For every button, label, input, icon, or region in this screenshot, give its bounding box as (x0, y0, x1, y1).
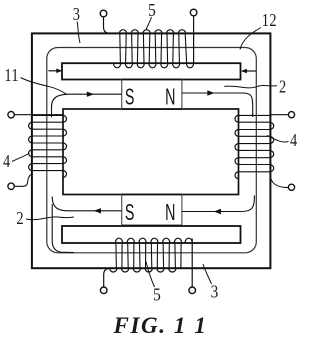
coil 4 right: top terminal lead (270, 114, 288, 116)
coil 4 left: wires (32, 115, 63, 170)
flux path bottom-left with arrow (52, 197, 122, 253)
coil 4 left: bumps on frame edge (29, 122, 32, 170)
arrow in top bar right (241, 69, 256, 74)
central armature block (63, 109, 239, 195)
coil 5 top: winding wires (120, 33, 187, 63)
coil 5 top: upper loop bumps (119, 30, 185, 34)
svg-text:S: S (125, 85, 135, 110)
coil 4 right: bottom terminal lead (271, 178, 289, 188)
svg-text:5: 5 (153, 284, 161, 304)
coil 5 top: left terminal (100, 10, 107, 17)
arrow in top bar left (49, 69, 63, 74)
coil 4 left: bottom terminal (8, 183, 14, 189)
ring core 12 (47, 48, 256, 253)
coil 4 right: wires (239, 115, 271, 171)
label 3 bottom with leader (203, 264, 218, 302)
flux path bottom-right with arrow (182, 196, 255, 215)
svg-text:2: 2 (16, 208, 23, 229)
svg-text:S: S (125, 201, 135, 226)
coil 5 bottom: left terminal lead (104, 268, 116, 287)
svg-text:12: 12 (262, 10, 277, 31)
label 2 left with leader (16, 208, 74, 229)
coil 4 right: bumps on armature edge (235, 115, 239, 178)
coil 5 top: left terminal lead (104, 17, 120, 34)
coil 5 bottom: upper loop bumps (115, 238, 192, 243)
coil 5 bottom: right terminal lead (191, 239, 193, 288)
svg-text:3: 3 (211, 281, 219, 301)
svg-text:2: 2 (279, 76, 286, 97)
svg-text:4: 4 (3, 151, 10, 172)
coil 5 top: lower loop bumps (114, 63, 194, 68)
coil 4 left: top terminal lead (14, 114, 63, 116)
svg-text:5: 5 (148, 0, 156, 20)
coil 4 right: top terminal (288, 112, 294, 118)
coil 4 right: bottom terminal (288, 184, 294, 190)
coil 5 bottom: left terminal (100, 287, 107, 294)
svg-text:4: 4 (290, 129, 297, 150)
label 4 left with leader (3, 151, 28, 172)
label 11 with leader (4, 65, 66, 95)
label 12 with leader (240, 10, 277, 50)
coil 4 left: top terminal (8, 112, 14, 118)
svg-text:N: N (165, 201, 175, 226)
coil 4 left: bumps on armature edge (63, 115, 67, 177)
bottom magnet box S-N (122, 195, 182, 226)
flux path top-right with arrow (182, 90, 253, 117)
top magnet box S-N (122, 80, 182, 110)
top pole bar (62, 63, 241, 79)
svg-text:N: N (165, 85, 175, 110)
outer yoke frame (32, 33, 271, 268)
svg-text:11: 11 (4, 65, 19, 86)
bottom pole bar (62, 226, 241, 243)
flux path top-left with arrow (52, 92, 122, 118)
label 4 right with leader (267, 129, 297, 150)
svg-text:3: 3 (73, 4, 80, 25)
coil 4 left: bottom terminal lead (14, 175, 31, 187)
label 2 right with leader (224, 76, 286, 97)
coil 5 bottom: lower loop bumps (110, 268, 176, 272)
coil 5 top: right terminal lead (193, 16, 195, 63)
label 5 bottom with leader (146, 262, 161, 305)
label 3 top with leader (73, 4, 80, 43)
coil 5 bottom: right terminal (189, 287, 196, 294)
coil 5 bottom: winding wires (116, 243, 181, 268)
coil 4 right: bumps on frame edge (270, 123, 273, 172)
coil 5 top: right terminal (190, 9, 197, 16)
label 5 top with leader (146, 0, 156, 30)
svg-text:FIG. 1 1: FIG. 1 1 (113, 313, 208, 338)
